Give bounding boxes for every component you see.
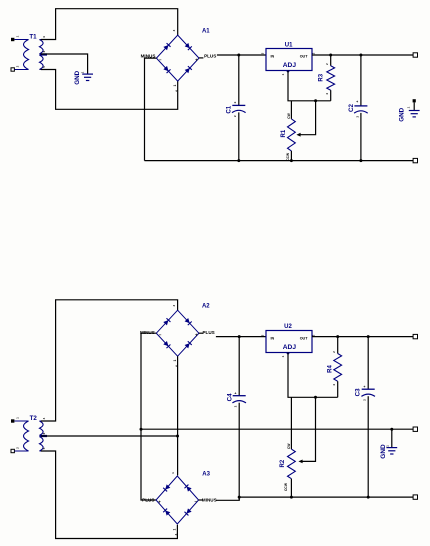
- svg-text:1: 1: [173, 84, 177, 86]
- transformer T2: [11, 415, 47, 453]
- svg-text:R4: R4: [328, 365, 334, 373]
- svg-text:2: 2: [16, 65, 20, 67]
- svg-text:1: 1: [281, 73, 285, 75]
- wire wiper: [298, 397, 315, 463]
- svg-text:ADJ: ADJ: [283, 62, 297, 69]
- wire wiper: [296, 101, 315, 137]
- wire: [41, 300, 178, 421]
- wire: [41, 9, 178, 40]
- svg-text:1: 1: [16, 35, 20, 37]
- svg-text:2: 2: [233, 115, 237, 117]
- diode: [163, 66, 170, 73]
- capacitor C1: [225, 101, 245, 117]
- svg-text:−: −: [159, 332, 162, 337]
- wire: [177, 356, 179, 475]
- svg-text:U1: U1: [285, 42, 293, 48]
- net label PLUS: [204, 54, 216, 59]
- wire: [239, 496, 414, 498]
- ground: [399, 99, 420, 122]
- svg-text:1: 1: [16, 417, 20, 419]
- wire: [238, 55, 240, 105]
- wire: [145, 160, 414, 162]
- svg-text:R1: R1: [281, 129, 287, 137]
- capacitor C4: [226, 392, 246, 408]
- svg-text:MINUS: MINUS: [140, 330, 155, 335]
- net label PLUS: [142, 497, 154, 502]
- diode: [163, 43, 170, 50]
- wire: [141, 428, 414, 430]
- wire: [367, 396, 369, 497]
- wire: [41, 435, 178, 437]
- wire: [367, 337, 369, 390]
- net label MINUS: [140, 330, 155, 335]
- svg-text:+: +: [234, 392, 236, 396]
- junction: [336, 335, 339, 338]
- wire: [290, 397, 292, 449]
- resistor R4: [328, 337, 342, 398]
- svg-text:IN: IN: [270, 55, 274, 59]
- ground: [380, 429, 397, 459]
- svg-text:2: 2: [325, 63, 329, 65]
- junction: [290, 159, 293, 162]
- svg-text:C3: C3: [354, 388, 361, 396]
- svg-text:C2: C2: [348, 103, 355, 111]
- diode: [163, 318, 170, 325]
- svg-text:OUT: OUT: [300, 337, 309, 341]
- svg-text:C4: C4: [226, 393, 233, 401]
- ground: [74, 70, 93, 84]
- svg-text:GND: GND: [399, 107, 406, 121]
- wire: [312, 336, 414, 338]
- terminal: [413, 158, 417, 162]
- svg-text:CCW: CCW: [284, 482, 288, 491]
- svg-text:−: −: [194, 499, 197, 504]
- junction: [367, 335, 370, 338]
- wire: [145, 58, 157, 161]
- junction: [359, 54, 362, 57]
- junction: [140, 428, 143, 431]
- diode: [163, 509, 170, 516]
- wire: [312, 54, 414, 56]
- svg-text:A1: A1: [202, 29, 210, 35]
- svg-text:1: 1: [81, 71, 85, 73]
- svg-text:4: 4: [332, 384, 336, 386]
- diode: [185, 66, 192, 73]
- svg-text:OUT: OUT: [300, 55, 309, 59]
- svg-text:3: 3: [261, 52, 265, 54]
- svg-text:2: 2: [233, 405, 237, 407]
- junction: [238, 335, 241, 338]
- bridge rectifier A1: [156, 29, 210, 92]
- svg-text:3: 3: [172, 29, 176, 31]
- svg-text:PLUS: PLUS: [202, 330, 214, 335]
- svg-text:CCW: CCW: [286, 152, 290, 161]
- svg-text:1: 1: [407, 106, 411, 108]
- terminal: [413, 495, 417, 499]
- svg-text:R3: R3: [318, 73, 324, 81]
- svg-text:CW: CW: [287, 112, 291, 118]
- bridge rectifier A3: [156, 472, 211, 536]
- svg-text:2: 2: [362, 399, 366, 401]
- bridge rectifier A2: [156, 303, 210, 367]
- junction: [290, 496, 293, 499]
- svg-text:ADJ: ADJ: [283, 344, 297, 351]
- svg-text:1: 1: [171, 472, 175, 474]
- transformer T1: [11, 34, 47, 72]
- svg-text:PLUS: PLUS: [204, 54, 216, 59]
- svg-text:1: 1: [173, 528, 177, 530]
- wire: [199, 333, 266, 336]
- svg-text:1: 1: [173, 360, 177, 362]
- net label MINUS: [202, 497, 217, 502]
- svg-text:3: 3: [172, 304, 176, 306]
- wire: [238, 112, 240, 160]
- svg-text:−: −: [159, 57, 162, 62]
- junction: [367, 496, 370, 499]
- diode: [184, 508, 191, 515]
- potentiometer R1: [281, 101, 296, 161]
- svg-text:2: 2: [16, 447, 20, 449]
- wire: [199, 497, 240, 500]
- diode: [184, 485, 191, 492]
- svg-text:+: +: [195, 58, 198, 63]
- net label PLUS: [202, 330, 214, 335]
- svg-text:+: +: [363, 385, 365, 389]
- svg-text:T1: T1: [29, 34, 37, 41]
- svg-text:4: 4: [325, 93, 329, 95]
- junction: [314, 396, 317, 399]
- junction: [314, 99, 317, 102]
- wire: [41, 451, 177, 539]
- capacitor C2: [348, 100, 368, 118]
- svg-text:A3: A3: [202, 472, 210, 478]
- svg-text:+: +: [195, 333, 198, 338]
- svg-text:+: +: [158, 500, 161, 505]
- net label MINUS: [141, 54, 156, 59]
- potentiometer R2: [280, 443, 295, 498]
- wire: [41, 70, 178, 110]
- junction: [329, 54, 332, 57]
- svg-text:1: 1: [281, 355, 285, 357]
- junction: [238, 496, 241, 499]
- svg-text:4: 4: [42, 417, 46, 419]
- svg-text:2: 2: [355, 115, 359, 117]
- svg-text:R2: R2: [280, 459, 286, 467]
- terminal: [413, 427, 417, 431]
- wire: [238, 403, 240, 501]
- diode: [184, 318, 191, 325]
- wire: [199, 55, 266, 58]
- svg-text:PLUS: PLUS: [142, 497, 154, 502]
- svg-text:2: 2: [332, 351, 336, 353]
- diode: [163, 484, 170, 491]
- diode: [185, 43, 192, 50]
- op-amp U1 regulator: [261, 42, 316, 75]
- junction: [237, 159, 240, 162]
- svg-text:MINUS: MINUS: [202, 497, 217, 502]
- svg-text:A2: A2: [202, 303, 210, 309]
- op-amp U2 regulator: [261, 324, 316, 357]
- capacitor C3: [354, 385, 375, 401]
- wire: [288, 353, 338, 398]
- wire: [288, 71, 331, 101]
- svg-text:C1: C1: [225, 105, 232, 113]
- svg-text:U2: U2: [284, 324, 292, 330]
- junction: [359, 159, 362, 162]
- svg-text:IN: IN: [270, 337, 274, 341]
- svg-text:T2: T2: [30, 415, 38, 422]
- svg-text:4: 4: [42, 36, 46, 38]
- resistor R3: [318, 55, 334, 101]
- junction: [390, 428, 393, 431]
- svg-text:3: 3: [261, 334, 265, 336]
- wire: [238, 337, 240, 396]
- wire: [141, 333, 156, 500]
- diode: [163, 341, 170, 348]
- svg-text:+: +: [356, 100, 358, 104]
- junction: [237, 54, 240, 57]
- diode: [184, 341, 191, 348]
- svg-text:CW: CW: [287, 443, 291, 449]
- wire: [360, 55, 362, 106]
- svg-text:+: +: [234, 101, 236, 105]
- terminal: [413, 334, 417, 338]
- wire: [41, 54, 88, 74]
- junction: [176, 435, 179, 438]
- terminal: [413, 53, 417, 57]
- wire: [360, 113, 362, 161]
